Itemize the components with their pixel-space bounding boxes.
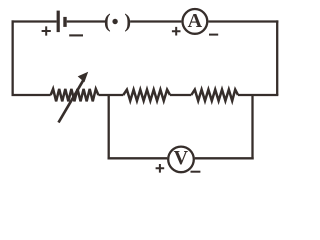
svg-text:): ) (124, 10, 131, 32)
wire voltmeter loop bottom left (108, 157, 168, 159)
rheostat arrowhead (78, 72, 89, 83)
rheostat arrow shaft (59, 80, 84, 123)
battery B1 long positive plate (57, 11, 60, 32)
wire top: key to ammeter (130, 20, 181, 22)
svg-text:(: ( (104, 10, 111, 32)
wire right vertical (276, 20, 278, 95)
battery minus label (69, 34, 83, 36)
wire middle: R1 to R2 (170, 94, 191, 96)
resistor R2 zigzag (191, 90, 238, 101)
wire top: ammeter to top-right corner (208, 20, 278, 22)
node B stub to voltmeter loop (251, 95, 253, 159)
wire voltmeter loop bottom right (195, 157, 254, 159)
wire top-left segment (corner to battery) (12, 20, 57, 22)
wire middle: R2 to right vertical (through node B) (238, 94, 278, 96)
voltmeter minus label (191, 171, 201, 173)
svg-text:V: V (174, 147, 189, 169)
ammeter minus label (209, 34, 218, 36)
voltmeter V circle (168, 147, 194, 173)
wire middle: left vertical to rheostat (12, 94, 51, 96)
voltmeter plus label (156, 164, 165, 173)
resistor R1 zigzag (123, 90, 170, 101)
wire middle: rheostat to resistor R1 (through node A) (98, 94, 123, 96)
wire top: battery to key (67, 20, 106, 22)
key K dot (112, 19, 117, 24)
wire left vertical (11, 20, 13, 95)
ammeter plus label (172, 27, 181, 36)
ammeter A circle (183, 9, 208, 34)
battery plus label (42, 26, 51, 35)
battery B1 short negative plate (63, 17, 66, 27)
svg-text:A: A (188, 10, 203, 32)
node A stub to voltmeter loop (108, 95, 110, 159)
rheostat Rh zigzag (51, 89, 99, 101)
